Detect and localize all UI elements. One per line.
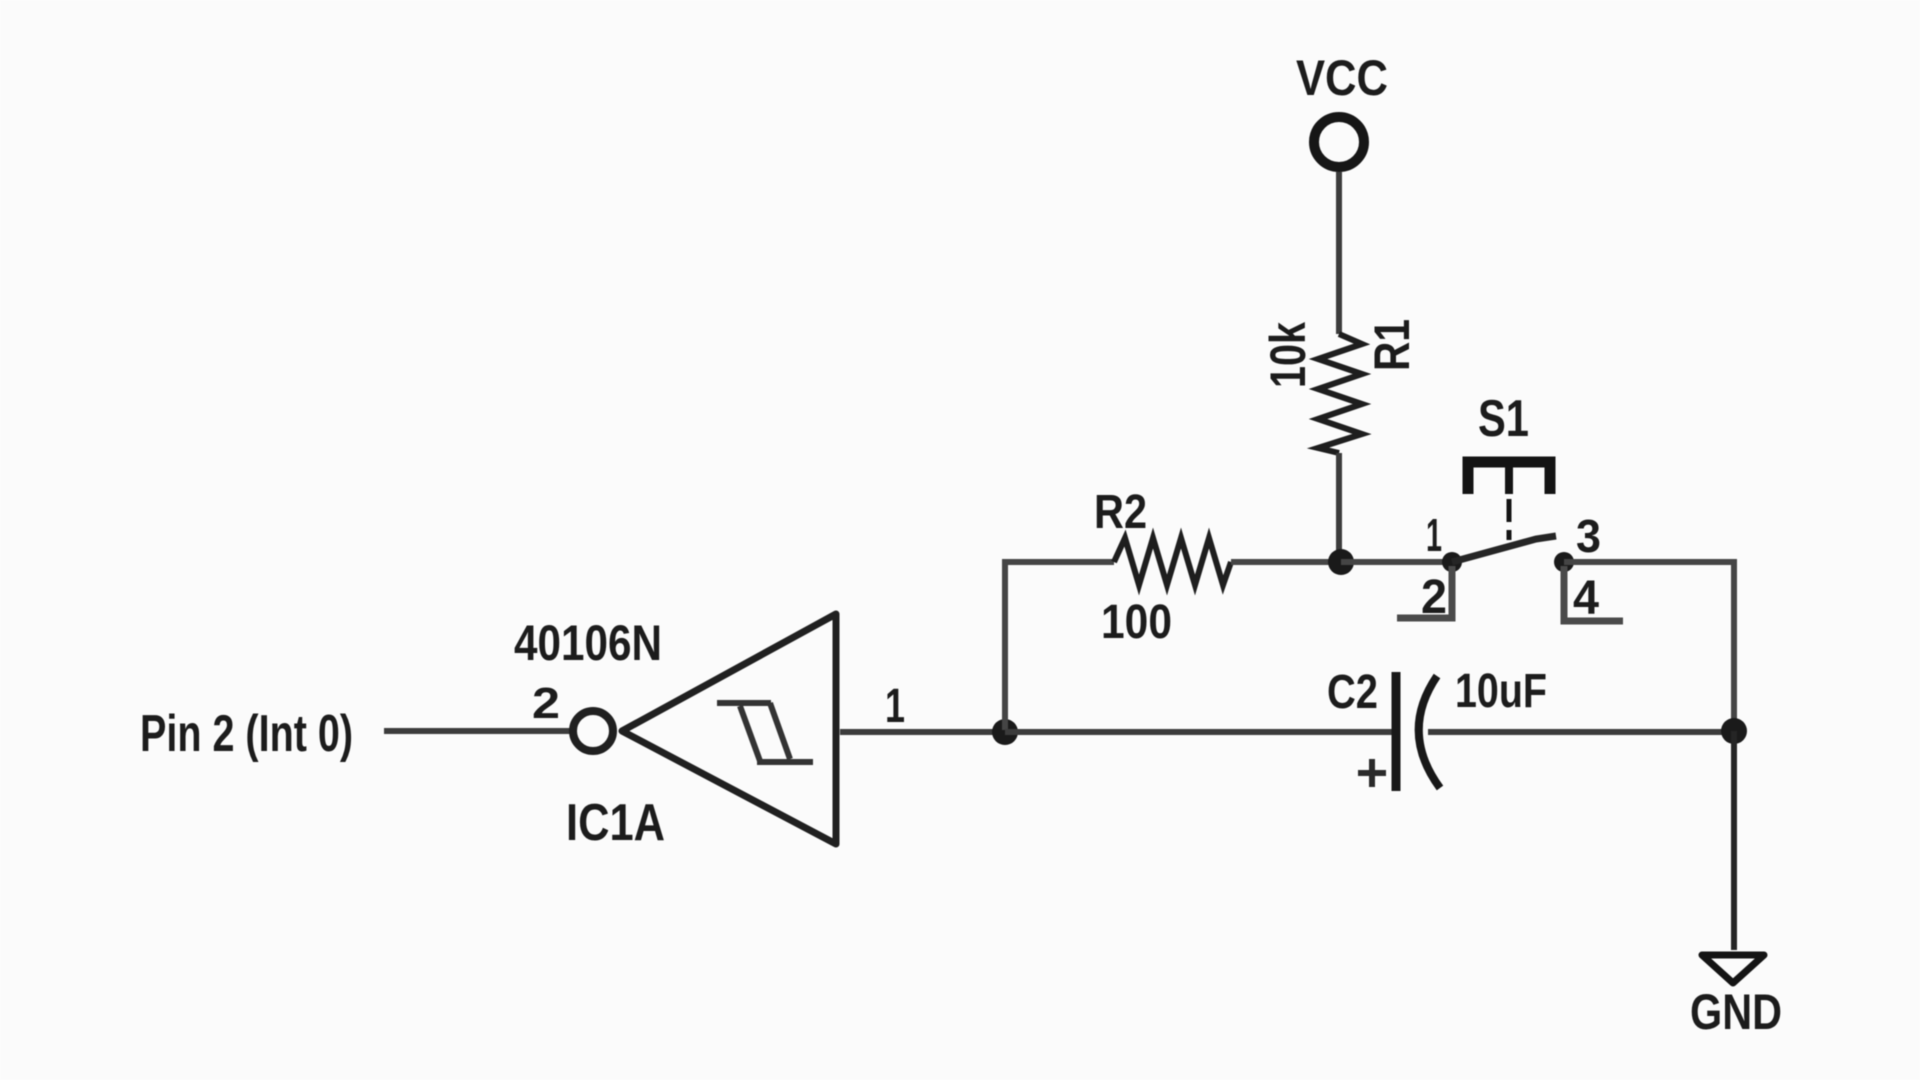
capacitor C2 plates <box>1396 672 1440 791</box>
polarity mark + <box>1358 759 1386 787</box>
svg-text:1: 1 <box>885 680 905 733</box>
wire: node A up to R2 left lead <box>1005 562 1114 730</box>
resistor R1 zigzag <box>1318 334 1362 453</box>
svg-text:R1: R1 <box>1364 319 1420 371</box>
wire: node C to ground <box>1731 731 1737 950</box>
svg-text:3: 3 <box>1576 510 1601 562</box>
svg-text:4: 4 <box>1573 572 1599 625</box>
svg-text:1: 1 <box>1426 509 1442 561</box>
wire: node B to S1 pin 1 <box>1341 559 1444 565</box>
svg-text:R2: R2 <box>1094 486 1147 539</box>
wire: input net to IC1A pin 2 <box>384 728 571 734</box>
node C junction dot <box>1721 718 1747 744</box>
ground symbol <box>1702 955 1764 983</box>
wire: R2 right lead to node B <box>1231 559 1336 565</box>
S1 pin 2 stub <box>1397 566 1452 618</box>
node B junction dot <box>1328 549 1354 575</box>
svg-text:Pin 2 (Int 0): Pin 2 (Int 0) <box>140 705 353 763</box>
svg-text:100: 100 <box>1101 596 1172 649</box>
wire: S1 pin 3 to right rail <box>1564 562 1734 720</box>
svg-text:IC1A: IC1A <box>566 794 665 852</box>
svg-text:2: 2 <box>532 679 560 728</box>
node A junction dot <box>992 719 1018 745</box>
power symbol VCC <box>1314 117 1364 167</box>
svg-text:S1: S1 <box>1478 390 1529 448</box>
inverter IC1A (Schmitt trigger) <box>573 614 836 844</box>
wire: R1 to node B <box>1336 453 1342 560</box>
svg-text:VCC: VCC <box>1296 50 1388 106</box>
svg-text:GND: GND <box>1690 984 1782 1040</box>
wire: node A to C2 left plate <box>1005 729 1392 735</box>
wire: IC1A output to node A <box>840 729 1003 735</box>
wire: VCC to R1 <box>1336 172 1342 334</box>
wire: C2 right plate to node C <box>1428 729 1734 735</box>
svg-text:40106N: 40106N <box>514 615 662 671</box>
resistor R2 zigzag <box>1114 538 1231 585</box>
S1 pin 4 stub <box>1564 566 1623 621</box>
svg-text:10uF: 10uF <box>1455 665 1547 718</box>
svg-text:10k: 10k <box>1260 322 1316 388</box>
svg-text:C2: C2 <box>1327 666 1378 719</box>
switch S1 body <box>1442 462 1574 572</box>
